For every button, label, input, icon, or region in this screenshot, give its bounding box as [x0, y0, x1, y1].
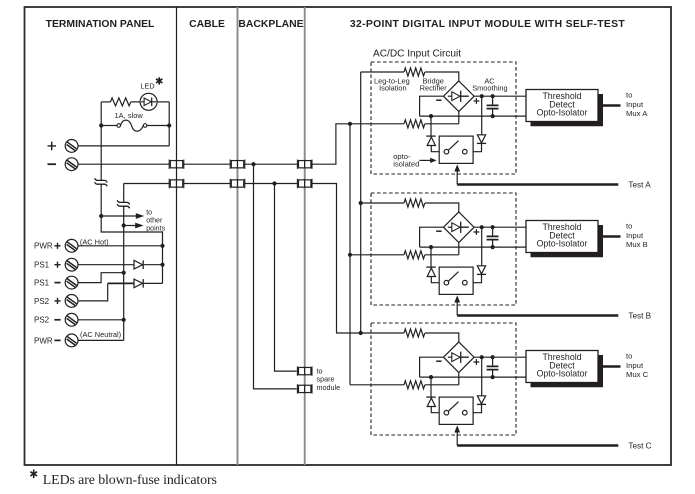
junction block B bottom feed [348, 253, 352, 257]
junction block B top feed [359, 201, 363, 205]
connector pair cable/backplane wire2 [230, 179, 245, 188]
plus sign [48, 142, 57, 151]
wire PS2+ jog up [78, 283, 108, 301]
svg-text:Isolation: Isolation [379, 83, 407, 92]
connector spare upper [297, 366, 312, 375]
junction PS2- [122, 318, 126, 322]
wire spare tap 2 [275, 184, 297, 372]
wire from + terminal [78, 145, 169, 147]
connector pair termination/cable wire2 [169, 179, 184, 188]
wire PWR- [78, 339, 124, 341]
svg-text:other: other [146, 216, 163, 224]
terminal - screw [65, 158, 78, 171]
svg-text:PS1: PS1 [34, 261, 50, 270]
junction fuse left [99, 123, 103, 127]
svg-text:PS2: PS2 [34, 297, 50, 306]
svg-text:TERMINATION PANEL: TERMINATION PANEL [46, 19, 155, 30]
vertical wire from LED/fuse loop (break symbol) [101, 102, 162, 284]
svg-text:Rectifier: Rectifier [420, 83, 448, 92]
junction spare tap wire1 [251, 162, 255, 166]
svg-text:Test B: Test B [628, 312, 651, 321]
svg-text:Mux C: Mux C [626, 370, 649, 379]
divider termination/cable [176, 7, 178, 465]
arrow to other points 1 [101, 215, 137, 217]
minus sign [48, 163, 57, 165]
AC/DC input circuit block B [350, 193, 644, 316]
junction fuse right [167, 123, 171, 127]
wire second diode row (thick) [108, 282, 134, 284]
terminal + screw [65, 140, 78, 153]
wire PS1+ with diode [78, 264, 134, 266]
diode PS1+ [134, 260, 143, 269]
svg-text:LED: LED [140, 82, 154, 91]
LED blown-fuse indicator [131, 101, 140, 103]
connector pair cable/backplane wire1 [230, 160, 245, 169]
svg-text:Smoothing: Smoothing [472, 83, 507, 92]
AC/DC input circuit block C [350, 323, 644, 446]
svg-text:to: to [146, 208, 152, 216]
vertical feed wire to block bottoms [349, 124, 351, 385]
arrow to other points 2 [124, 225, 137, 227]
svg-text:PS2: PS2 [34, 316, 50, 325]
footnote asterisk [30, 470, 37, 479]
vertical feed wire to block tops [360, 72, 362, 333]
svg-text:CABLE: CABLE [189, 19, 225, 30]
svg-text:BACKPLANE: BACKPLANE [238, 19, 303, 30]
svg-text:1A, slow: 1A, slow [115, 111, 144, 120]
connector pair backplane/module wire1 [297, 160, 312, 169]
junction PS1+ [160, 263, 164, 267]
junction spare tap wire2 [272, 181, 276, 185]
terminal screw PS1 + [65, 258, 78, 271]
junction to other points 1 [99, 214, 103, 218]
wire 1: - line through cable and backplane [78, 124, 350, 164]
junction to other points 2 [122, 223, 126, 227]
svg-text:(AC Neutral): (AC Neutral) [80, 330, 121, 339]
connector spare lower [297, 384, 312, 393]
svg-text:module: module [317, 383, 341, 392]
junction PS1- [122, 271, 126, 275]
wire 2: return line through cable and backplane [124, 184, 361, 334]
svg-text:PWR: PWR [34, 336, 53, 345]
vertical distribution wire with break symbol [123, 184, 125, 341]
junction PWR+ [160, 244, 164, 248]
svg-text:Mux A: Mux A [626, 109, 648, 118]
svg-text:(AC Hot): (AC Hot) [80, 237, 109, 246]
svg-text:points: points [146, 224, 165, 232]
connector pair backplane/module wire2 [297, 179, 312, 188]
terminal screw PWR - [65, 334, 78, 347]
AC/DC input circuit block A [350, 62, 644, 185]
asterisk footnote marker [156, 77, 162, 84]
connector pair termination/cable wire1 [169, 160, 184, 169]
svg-text:32-POINT DIGITAL INPUT MODULE: 32-POINT DIGITAL INPUT MODULE WITH SELF-… [350, 19, 626, 30]
svg-text:LEDs are blown-fuse indicators: LEDs are blown-fuse indicators [43, 473, 217, 488]
divider backplane/module [304, 7, 306, 465]
terminal screw PS2 - [65, 313, 78, 326]
svg-text:Test C: Test C [628, 442, 651, 451]
svg-text:PS1: PS1 [34, 279, 50, 288]
wire PS2- [78, 319, 124, 321]
diode row 2 [134, 279, 143, 288]
svg-text:Test A: Test A [628, 181, 651, 190]
svg-text:isolated: isolated [393, 159, 419, 168]
svg-text:AC/DC Input Circuit: AC/DC Input Circuit [373, 49, 461, 60]
svg-text:Mux B: Mux B [626, 240, 648, 249]
junction wire1 / block A bottom [348, 122, 352, 126]
resistor in LED branch [101, 101, 110, 103]
terminal screw PS2 + [65, 295, 78, 308]
svg-text:PWR: PWR [34, 242, 53, 251]
junction block C top feed [359, 331, 363, 335]
wire right side of LED/fuse loop down to + wire [168, 102, 170, 146]
wire spare tap 1 [254, 164, 297, 389]
wire PWR+ [78, 245, 163, 247]
fuse F 1A slow [101, 125, 117, 127]
terminal screw PWR + [65, 239, 78, 252]
terminal screw PS1 - [65, 276, 78, 289]
divider cable/backplane [237, 7, 239, 465]
wire PS1- jog up [78, 273, 124, 283]
